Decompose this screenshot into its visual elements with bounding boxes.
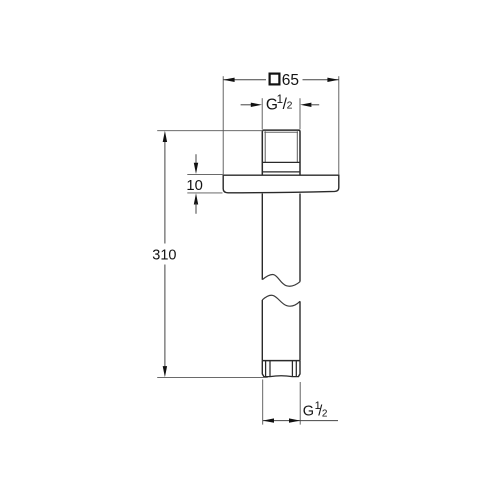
- pipe break lower wavy line: [262, 295, 300, 306]
- dimension sq65: extension line left: [222, 76, 224, 175]
- dimension 310: vertical dimension line lower part: [164, 265, 166, 369]
- bottom fitting hex facet lines: [266, 361, 297, 377]
- dimension G1/2 bottom: left arrowhead: [263, 418, 274, 422]
- bottom hex nut fitting top line: [262, 360, 300, 362]
- svg-text:310: 310: [152, 247, 176, 263]
- thread tenon top (square G1/2 connector): [262, 130, 300, 175]
- thread relief line: [262, 161, 300, 163]
- dimension G1/2 top: extension line left: [261, 98, 263, 129]
- thread tenon top edge (thick): [264, 131, 298, 133]
- bottom fitting left outer edge: [262, 361, 264, 377]
- dimension sq65: square symbol: [270, 74, 280, 85]
- svg-text:2: 2: [322, 409, 328, 420]
- thread inner profile lines: [265, 131, 297, 162]
- dimension sq65: arrowhead left: [223, 78, 234, 82]
- dimension G1/2 top: extension line right: [299, 98, 301, 129]
- dimension sq65: extension line right: [338, 76, 340, 175]
- ceiling flange (square escutcheon, side view): [223, 175, 339, 193]
- dimension G1/2 top: left tail line: [241, 104, 252, 106]
- collar line above flange: [262, 171, 300, 173]
- dimension 310: top extension line: [157, 130, 263, 132]
- dimension G1/2 bottom: extension line right: [299, 382, 301, 425]
- pipe break upper wavy line: [262, 275, 300, 287]
- dimension 10: lower arrow line: [195, 203, 197, 214]
- dimension 310: top arrowhead: [163, 131, 167, 142]
- pipe upper segment left edge: [261, 194, 263, 280]
- dimension G1/2 bottom: extension line left: [262, 380, 264, 425]
- dimension G1/2 bottom: dimension line with right tail: [263, 420, 338, 422]
- dimension sq65: arrowhead right: [327, 78, 338, 82]
- bottom fitting bottom edge: [263, 375, 299, 378]
- dimension 10: lower arrowhead: [194, 193, 198, 204]
- svg-text:65: 65: [282, 72, 299, 89]
- dimension G1/2 top: left arrowhead: [251, 103, 262, 107]
- dimension 310: bottom extension line: [157, 376, 268, 378]
- dimension 10: upper arrow line: [195, 154, 197, 165]
- dimension sq65: dimension line: [223, 79, 339, 81]
- dimension 10: extension line lower: [187, 192, 222, 194]
- svg-text:10: 10: [186, 178, 202, 194]
- dimension 10: upper arrowhead: [194, 163, 198, 174]
- pipe upper segment right edge: [299, 194, 301, 282]
- pipe lower segment right edge: [299, 301, 301, 360]
- svg-text:G: G: [303, 403, 314, 419]
- dimension 310: vertical dimension line upper part: [164, 140, 166, 244]
- pipe lower segment left edge: [261, 300, 263, 361]
- dimension 10: extension line upper: [187, 173, 222, 175]
- dimension G1/2 top: right tail line: [311, 104, 319, 106]
- dimension G1/2 top: right arrowhead: [300, 103, 311, 107]
- svg-text:2: 2: [287, 99, 293, 111]
- dimension 310: bottom arrowhead: [163, 366, 167, 377]
- dimension G1/2 bottom: right arrowhead: [289, 418, 300, 422]
- bottom fitting right outer edge: [298, 361, 300, 377]
